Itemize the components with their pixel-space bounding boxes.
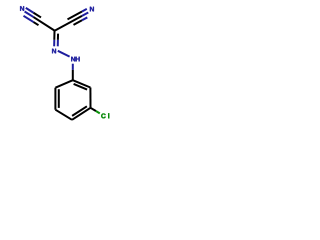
nitrile N1 triple bond axis, blue half xyxy=(25,12,34,18)
C-Cl bond, black half xyxy=(91,108,96,111)
nitrile N2 triple bond axis, blue half xyxy=(82,13,88,16)
nitrile N1 lower flank, blue part xyxy=(24,16,34,22)
nitrogen label N1 xyxy=(20,6,24,11)
nitrile N1 upper flank, blue part xyxy=(26,8,34,13)
ring edge V2-V3 outer xyxy=(54,88,56,110)
NH label N6, letter H xyxy=(76,57,80,62)
nitrogen label N2 xyxy=(90,7,94,12)
C=N5 double bond inner line, black half xyxy=(57,34,59,40)
nitrile N2 lower flank, black part xyxy=(74,20,83,25)
N5-N6 single bond (blue) xyxy=(58,51,70,57)
nitrile N1 upper flank, black part xyxy=(34,13,42,18)
C-Cl bond, green half xyxy=(96,111,100,113)
C=N5 double bond main line, blue half xyxy=(53,40,55,46)
C=N5 double bond main line, black half xyxy=(53,31,55,40)
C=N5 double bond inner line, blue half xyxy=(57,40,59,46)
ring edge V1-V2 xyxy=(55,80,72,88)
ring edge V4-V5 outer xyxy=(72,108,91,120)
ring edge V6-V1 inner double line xyxy=(74,84,88,90)
N6-ring bond, black half xyxy=(72,70,74,80)
N6-ring bond, blue half xyxy=(72,64,74,70)
ring edge V2-V3 inner double line xyxy=(58,89,60,108)
nitrile N2 lower flank, blue part xyxy=(82,17,87,20)
ring edge V3-V4 xyxy=(55,110,72,120)
ring edge V5-V6 xyxy=(89,88,91,108)
ring edge V4-V5 inner double line xyxy=(72,106,87,116)
nitrile N1 lower flank, black part xyxy=(34,22,39,25)
NH label N6, letter N xyxy=(71,57,75,62)
Cl label, letter C xyxy=(101,114,105,119)
nitrile N2 upper flank, black part xyxy=(68,12,83,20)
nitrogen label N5 xyxy=(52,49,56,54)
nitrile N1 triple bond axis, black half to central C xyxy=(34,17,55,31)
ring edge V6-V1 outer xyxy=(73,80,91,87)
Cl label, letter l xyxy=(107,113,110,118)
nitrile N2 upper flank, blue part xyxy=(82,9,87,12)
nitrile N2 triple bond axis, black half from central C xyxy=(55,16,82,31)
